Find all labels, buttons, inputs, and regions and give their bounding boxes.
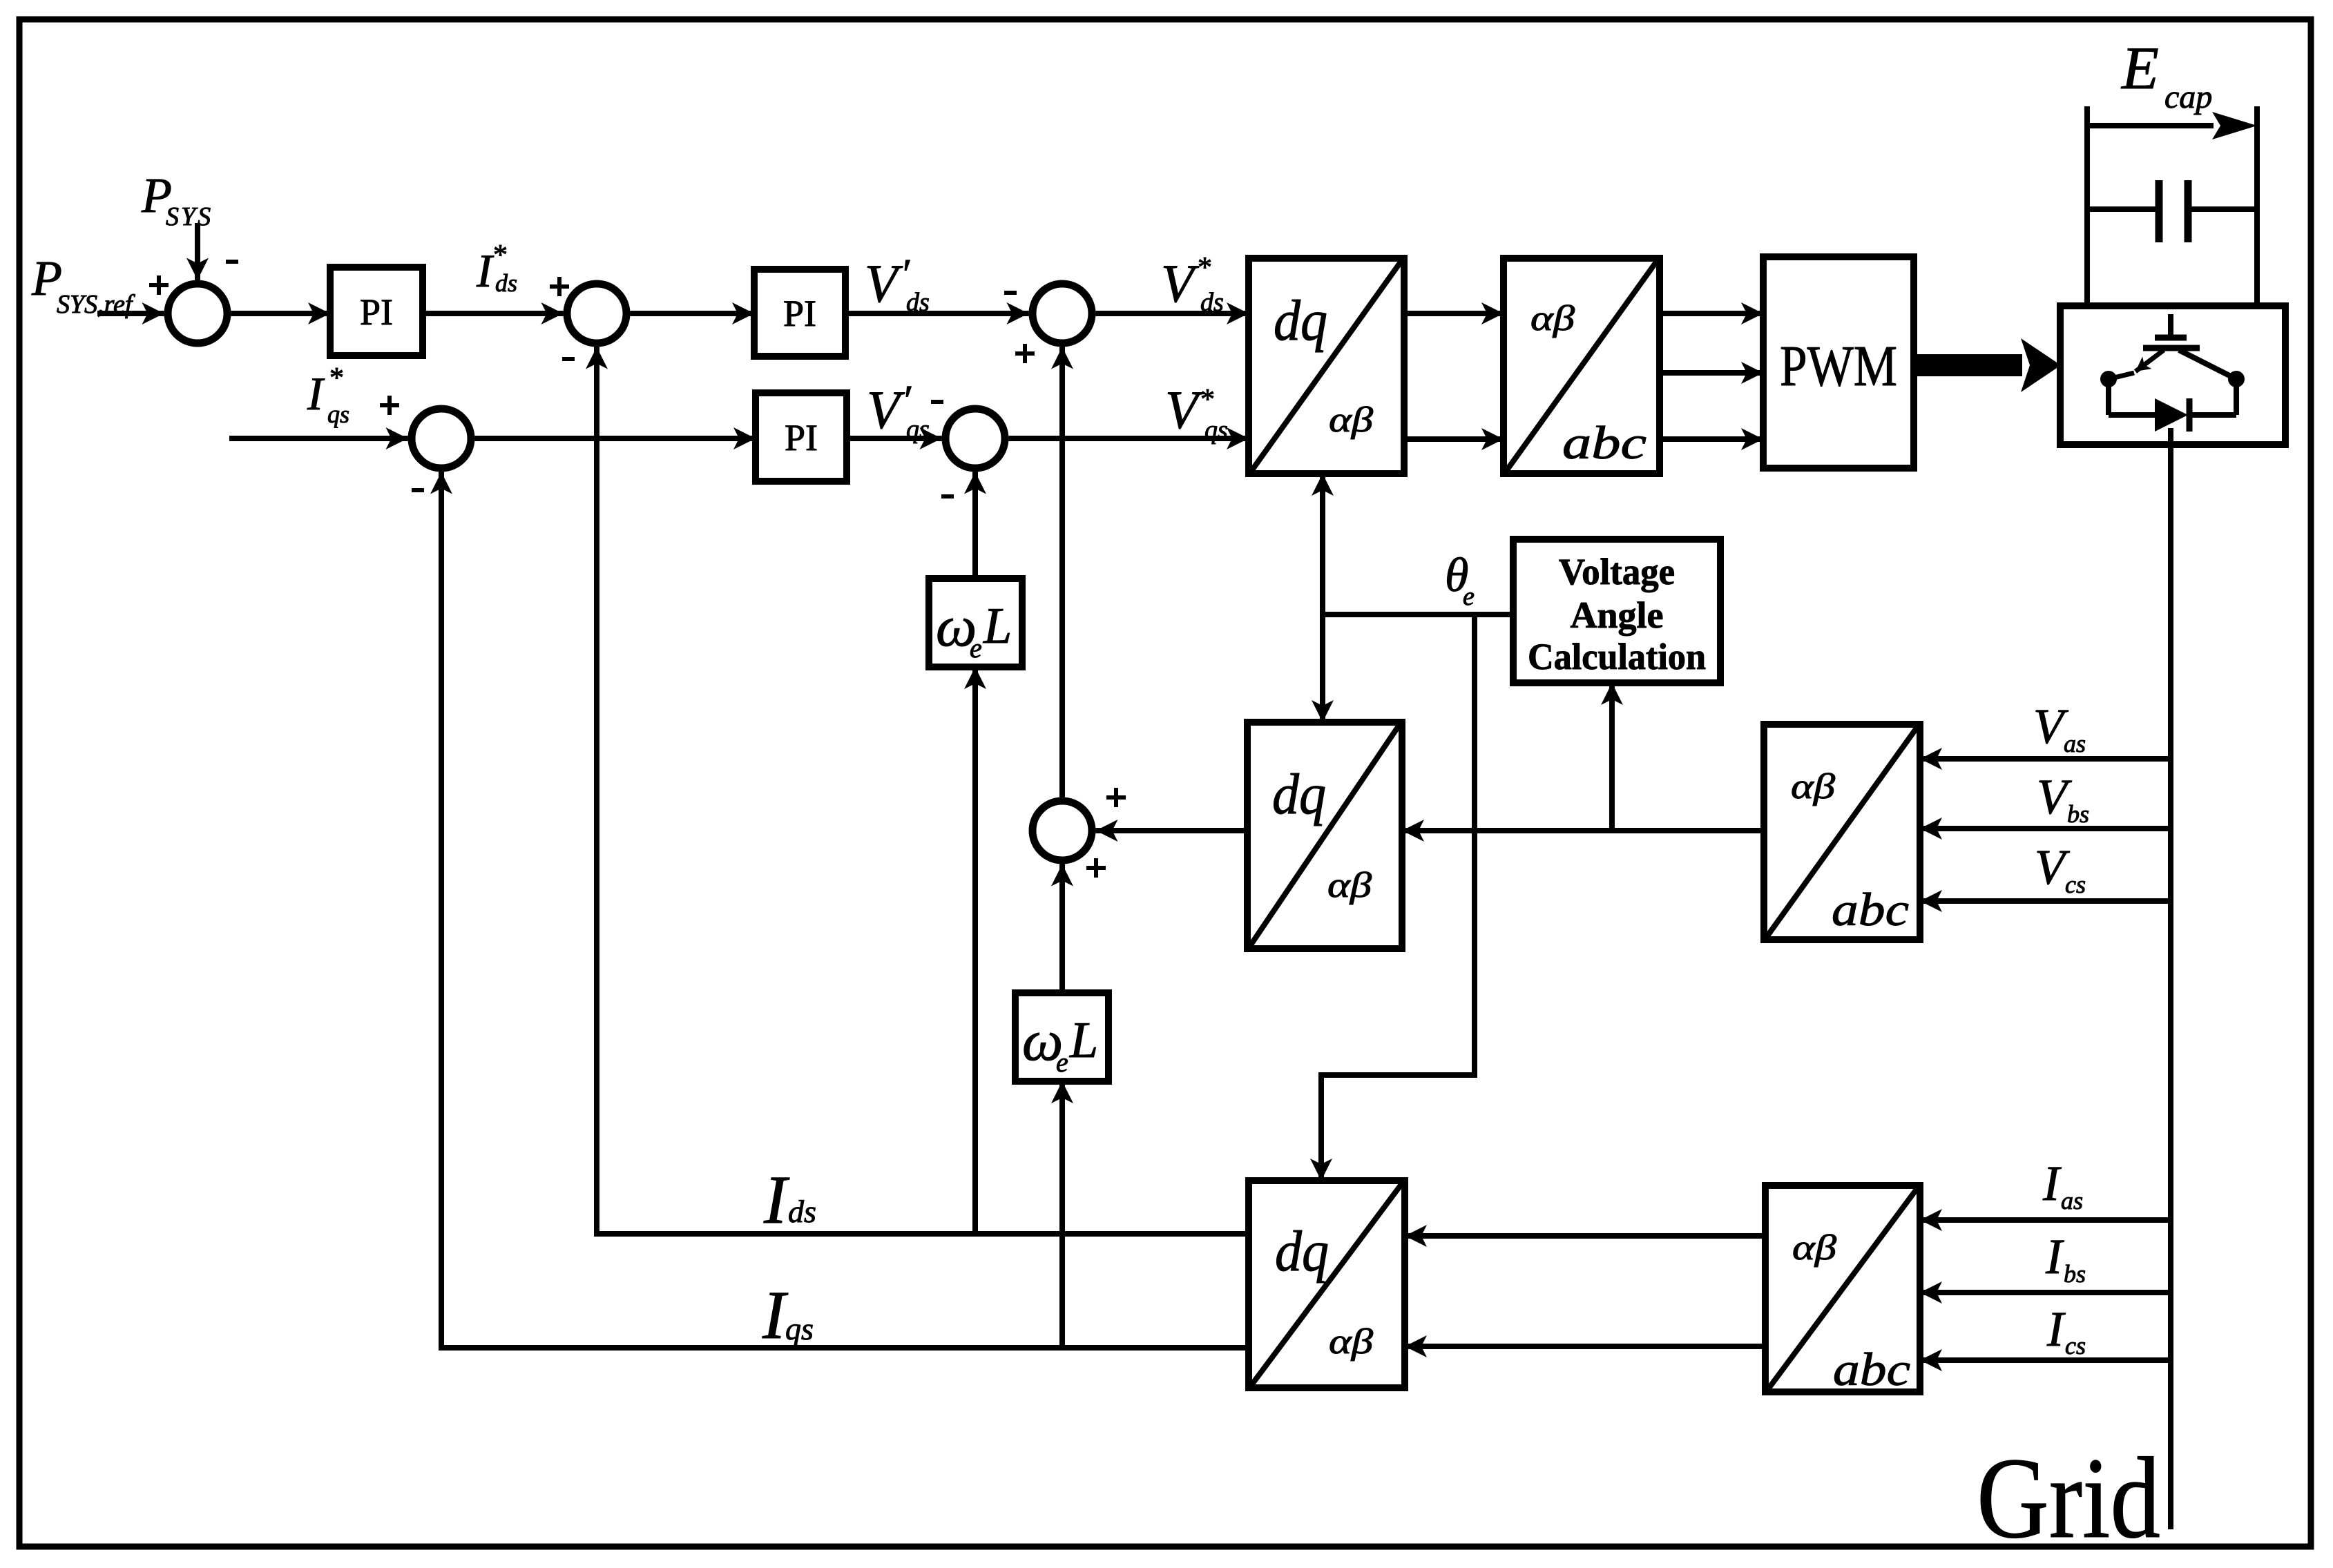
sign + at S2 — [550, 277, 569, 296]
wire Ics tap — [1920, 1357, 2171, 1363]
svg-text:L: L — [983, 598, 1012, 655]
wire Ids feedback row — [594, 1231, 1249, 1237]
sign + at S1 — [149, 275, 169, 295]
svg-text:E: E — [2120, 35, 2159, 102]
svg-text:Calculation: Calculation — [1528, 636, 1706, 677]
svg-text:L: L — [1069, 1012, 1098, 1069]
svg-text:Angle: Angle — [1571, 594, 1664, 636]
svg-text:dq: dq — [1274, 289, 1327, 353]
sign + at S4 — [380, 396, 399, 415]
block ab/abc transform (measured currents) — [1765, 1185, 1920, 1392]
svg-text:V: V — [867, 380, 905, 440]
svg-text:V: V — [1161, 253, 1200, 313]
wire weL output up to S5 — [972, 472, 978, 579]
sign + at S6 — [1106, 788, 1126, 807]
svg-text:dq: dq — [1272, 762, 1326, 826]
svg-text:abc: abc — [1562, 416, 1646, 469]
svg-text:abc: abc — [1832, 883, 1909, 936]
block Voltage Angle Calculation — [1513, 539, 1720, 683]
wire Iqs into weL — [1059, 1081, 1065, 1348]
block weL (q-axis decoupling) — [1015, 993, 1108, 1081]
svg-text:V: V — [1165, 380, 1204, 440]
sign - at S1 — [226, 260, 238, 264]
svg-text:ds: ds — [1200, 288, 1224, 317]
block dq/ab transform (measured currents) — [1249, 1181, 1405, 1388]
svg-text:I: I — [476, 244, 495, 297]
wire Iqs* input to S4 — [229, 436, 408, 441]
sign - at S2 — [562, 357, 575, 361]
wire to diode anode — [2106, 379, 2111, 415]
transistor IGBT symbol — [2168, 314, 2173, 338]
wire Psys into S1 — [195, 223, 200, 280]
block PI (d-axis power controller) — [330, 267, 423, 356]
IGBT emitter arrow — [2135, 350, 2164, 371]
sign + at S6 lower — [1086, 858, 1106, 878]
wire theta_e from VAC output — [1323, 612, 1513, 617]
wire DC link left — [2084, 106, 2090, 306]
wire S5 to dq/ab (Vqs*) — [1009, 436, 1249, 441]
wire Vb* to PWM — [1660, 370, 1763, 376]
svg-text:αβ: αβ — [1530, 299, 1575, 338]
svg-text:PWM: PWM — [1780, 334, 1897, 398]
summing junction S5 (Vqs* ) — [945, 409, 1005, 468]
svg-text:qs: qs — [1204, 416, 1228, 445]
wire DC link right — [2254, 106, 2260, 306]
svg-text:ds: ds — [906, 288, 930, 317]
wire Vab up into VAC — [1609, 683, 1615, 831]
wire S3 to dq/ab (Vds*) — [1096, 311, 1249, 316]
wire weL output up to S6 — [1059, 864, 1065, 994]
svg-text:*: * — [1200, 384, 1215, 416]
wire Vcs tap — [1920, 898, 2171, 904]
svg-text:ds: ds — [788, 1194, 816, 1229]
svg-text:I: I — [307, 367, 325, 420]
wire PI to S2 (Ids*) — [423, 311, 564, 316]
svg-text:αβ: αβ — [1791, 767, 1835, 806]
IGBT collector lead — [2179, 350, 2236, 379]
svg-text:cs: cs — [2065, 1332, 2086, 1359]
svg-text:bs: bs — [2067, 800, 2089, 828]
wire Vbeta* from dq/ab to ab/abc — [1404, 436, 1504, 442]
summing junction S6 (Vd + wL term) — [1033, 801, 1092, 860]
wire Iqs feedback row — [439, 1345, 1249, 1351]
diode freewheel — [2155, 398, 2188, 432]
wire Ia from ab/abc to dq/ab — [1405, 1233, 1765, 1239]
svg-text:V: V — [865, 253, 903, 313]
wire PI to S3 (Vds') — [845, 311, 1029, 316]
svg-text:*: * — [1198, 252, 1212, 284]
capacitor C dc-link — [2156, 180, 2163, 242]
sign - at S5 — [931, 400, 943, 404]
block IGBT converter — [2060, 306, 2285, 445]
summing junction S2 (Ids* - Ids) — [567, 284, 626, 343]
svg-text:abc: abc — [1833, 1343, 1910, 1395]
svg-text:qs: qs — [785, 1311, 814, 1346]
svg-text:αβ: αβ — [1327, 866, 1372, 905]
block dq/ab transform (measured voltages) — [1247, 722, 1402, 949]
svg-text:I: I — [2045, 1229, 2064, 1284]
block PWM — [1763, 257, 1914, 468]
wire Vas tap — [1920, 756, 2171, 762]
wire theta_e into dq/ab current block — [1318, 1072, 1324, 1181]
svg-text:as: as — [2064, 730, 2086, 757]
svg-text:αβ: αβ — [1329, 1322, 1373, 1362]
svg-text:bs: bs — [2064, 1260, 2086, 1288]
svg-text:qs: qs — [327, 400, 349, 428]
wire S6 output up to S3 — [1059, 347, 1065, 797]
svg-text:αβ: αβ — [1329, 400, 1373, 440]
wire PI to S5 (Vqs') — [847, 436, 942, 441]
svg-text:*: * — [493, 240, 508, 271]
block dq/ab transform (reference voltages) — [1249, 258, 1404, 474]
svg-text:PI: PI — [783, 293, 816, 334]
svg-text:*: * — [329, 362, 344, 394]
wire Ids feedback up to S2 — [594, 347, 599, 1237]
block weL (d-axis decoupling) — [929, 579, 1022, 667]
wire Valpha* from dq/ab to ab/abc — [1404, 311, 1504, 316]
node right junction dot — [2228, 371, 2245, 387]
svg-text:e: e — [1463, 582, 1475, 611]
svg-text:ds: ds — [495, 269, 517, 297]
svg-text:qs: qs — [906, 415, 930, 444]
wire theta_e down into dq/ab voltage block — [1320, 614, 1325, 722]
svg-text:SYS,ref: SYS,ref — [57, 290, 135, 319]
svg-text:Grid: Grid — [1977, 1434, 2160, 1562]
wire Iqs feedback up to S4 — [439, 472, 444, 1351]
svg-text:SYS: SYS — [166, 202, 213, 231]
wire S2 to PI — [631, 311, 755, 316]
sign - at S4 — [412, 488, 424, 492]
wire Ias tap — [1920, 1217, 2171, 1223]
wire theta_e up into dq/ab ref block — [1320, 474, 1325, 614]
svg-text:as: as — [2061, 1187, 2083, 1214]
svg-text:dq: dq — [1275, 1219, 1329, 1284]
block PI (q-axis current controller) — [756, 393, 847, 481]
sign + at S3 — [1015, 344, 1035, 363]
node left junction dot — [2100, 371, 2117, 387]
summing junction S1 (Psys,ref - Psys) — [168, 284, 227, 343]
svg-text:PI: PI — [360, 291, 393, 333]
wire Ids into weL — [972, 667, 978, 1234]
wire theta_e drop — [1472, 614, 1477, 1078]
wire Vbs tap — [1920, 826, 2171, 831]
wire Psys,ref input to S1 — [97, 311, 164, 316]
wire Ibs tap — [1920, 1290, 2171, 1295]
wire PWM gating bus to converter (thick arrow) — [1914, 354, 2022, 376]
sign - at S3 — [1004, 291, 1017, 295]
svg-text:cap: cap — [2164, 79, 2212, 115]
summing junction S3 (Vds* ) — [1033, 284, 1092, 343]
block ab/abc transform (reference voltages) — [1504, 258, 1660, 474]
svg-text:e: e — [1056, 1047, 1068, 1078]
wire diode cathode to right node — [2189, 412, 2236, 418]
arrow Ecap measurement — [2087, 123, 2214, 128]
wire S4 to PI — [475, 436, 756, 441]
wire Vdq to S6 — [1096, 828, 1248, 833]
block PI (d-axis current controller) — [754, 269, 845, 356]
wire S1 to PI — [231, 311, 331, 316]
wire Vab from ab/abc to dq/ab — [1402, 828, 1764, 833]
summing junction S4 (Iqs* - Iqs) — [412, 409, 471, 468]
wire Vc* to PWM — [1660, 436, 1763, 442]
block ab/abc transform (measured voltages) — [1764, 724, 1920, 940]
wire converter to grid bus — [2168, 428, 2173, 1529]
wire theta_e jog — [1318, 1072, 1477, 1078]
wire Va* to PWM — [1660, 311, 1763, 316]
svg-text:I: I — [2046, 1301, 2066, 1357]
wire Ib from ab/abc to dq/ab — [1405, 1344, 1765, 1349]
sign - at S5 lower — [941, 494, 954, 499]
svg-text:PI: PI — [785, 417, 818, 458]
svg-text:Voltage: Voltage — [1559, 551, 1675, 592]
svg-text:e: e — [970, 632, 982, 664]
svg-text:αβ: αβ — [1792, 1228, 1836, 1268]
svg-text:I: I — [763, 1161, 790, 1238]
svg-text:cs: cs — [2065, 871, 2086, 898]
svg-text:I: I — [2042, 1156, 2062, 1211]
